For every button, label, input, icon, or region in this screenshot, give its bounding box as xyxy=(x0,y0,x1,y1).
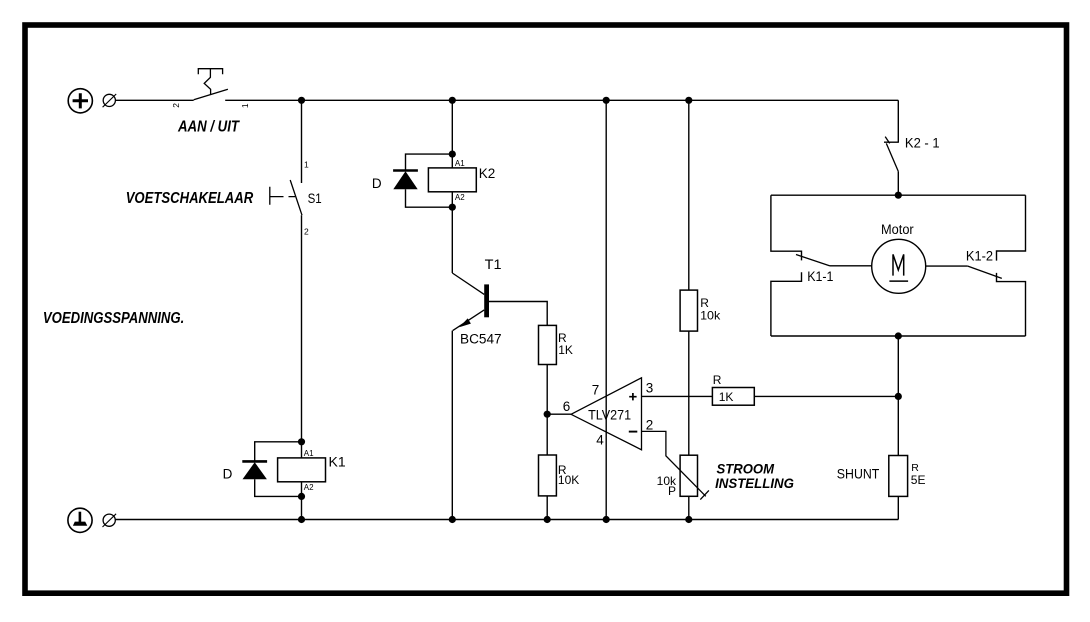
connector pin bottom-left xyxy=(103,514,117,527)
wire motor to K1-2 xyxy=(926,265,968,267)
wire motor loop to shunt node xyxy=(897,336,899,456)
ground terminal xyxy=(68,508,92,532)
svg-text:A2: A2 xyxy=(304,483,314,492)
svg-text:K1: K1 xyxy=(329,453,346,469)
wire S1 pin1 xyxy=(301,100,303,183)
node top rail / op-amp supply branch xyxy=(603,97,610,104)
svg-text:R: R xyxy=(713,373,722,387)
diode D (K2 flyback) xyxy=(393,171,418,190)
wire bottom rail xyxy=(116,519,899,521)
relay contact K2-1 blade xyxy=(886,143,898,171)
wire pin 3 stub to R1K right xyxy=(642,395,713,397)
wire motor loop right upper xyxy=(997,195,1026,260)
node top rail / K2 branch xyxy=(449,97,456,104)
svg-text:K1-1: K1-1 xyxy=(807,269,833,284)
svg-text:VOEDINGSSPANNING.: VOEDINGSSPANNING. xyxy=(43,310,184,327)
svg-text:AAN / UIT: AAN / UIT xyxy=(177,118,240,135)
svg-text:BC547: BC547 xyxy=(460,332,502,347)
resistor R 10K box xyxy=(539,455,557,496)
resistor R 1K (feedback) box xyxy=(712,388,754,406)
svg-text:10K: 10K xyxy=(558,473,579,487)
svg-text:D: D xyxy=(223,466,233,481)
svg-text:2: 2 xyxy=(171,103,181,108)
svg-text:A1: A1 xyxy=(455,159,465,168)
wire K1-1 to motor xyxy=(830,265,872,267)
svg-text:1K: 1K xyxy=(719,390,734,404)
wire op-amp supply pin7/pin4 vertical xyxy=(605,100,607,519)
svg-text:2: 2 xyxy=(304,226,309,236)
svg-text:5E: 5E xyxy=(911,473,926,487)
svg-text:VOETSCHAKELAAR: VOETSCHAKELAAR xyxy=(126,190,254,207)
relay coil K1 box xyxy=(278,458,326,482)
node K2 A1 junction xyxy=(449,151,456,158)
relay contact K2-1 fixed contact xyxy=(884,137,899,144)
node K1 A1 junction xyxy=(298,438,305,445)
wire K2 diode loop top xyxy=(406,154,453,170)
node motor loop bottom xyxy=(895,332,902,339)
wire K2 diode loop bottom xyxy=(406,189,453,207)
transistor T1 emitter lead xyxy=(453,310,485,331)
wire R10k branch vertical xyxy=(688,100,690,290)
svg-text:K1-2: K1-2 xyxy=(966,249,993,264)
wire motor loop right lower xyxy=(997,273,1026,336)
svg-text:K2 - 1: K2 - 1 xyxy=(905,136,940,151)
wire T1 base to R1K xyxy=(489,302,547,326)
op-amp plus input sign xyxy=(629,393,636,400)
relay coil K2 box xyxy=(428,168,476,192)
potentiometer wiper end tick xyxy=(700,490,709,499)
svg-text:Motor: Motor xyxy=(881,222,914,237)
svg-text:STROOM: STROOM xyxy=(717,460,775,476)
svg-text:TLV271: TLV271 xyxy=(588,407,631,422)
node shunt top junction xyxy=(895,393,902,400)
wire R1K right to shunt node xyxy=(754,395,898,397)
wire K1 diode loop bottom xyxy=(255,479,302,496)
resistor R 1K (base) box xyxy=(539,325,557,364)
svg-text:1: 1 xyxy=(240,103,250,108)
node bottom rail / K1 branch xyxy=(298,516,305,523)
wire K1 coil vertical xyxy=(301,442,303,497)
op-amp U1 TLV271 triangle xyxy=(571,378,642,450)
node K2 A2 junction xyxy=(449,204,456,211)
wire shunt to bottom rail corner xyxy=(897,496,899,519)
transistor T1 emitter arrow xyxy=(459,318,471,327)
wire K2 coil to collector xyxy=(451,192,453,273)
svg-text:D: D xyxy=(372,176,382,191)
svg-text:INSTELLING: INSTELLING xyxy=(715,475,794,491)
svg-text:A2: A2 xyxy=(455,193,465,202)
node bottom rail / op-amp pin4 xyxy=(603,516,610,523)
node motor loop top xyxy=(895,192,902,199)
svg-text:1K: 1K xyxy=(558,343,573,357)
wire motor loop bottom line xyxy=(771,335,1026,337)
diode D (K1 flyback) xyxy=(242,461,267,479)
connector pin top-left xyxy=(103,94,117,107)
wire motor loop left lower xyxy=(771,272,802,336)
svg-text:3: 3 xyxy=(646,381,654,396)
switch AAN/UIT pushbutton actuator xyxy=(198,69,222,95)
node top rail / S1 branch xyxy=(298,97,305,104)
wire node to R10K xyxy=(546,414,548,455)
wire K1 to bottom rail xyxy=(301,496,303,519)
transistor T1 base bar xyxy=(484,284,489,317)
node bottom rail / R10K branch xyxy=(544,516,551,523)
wire top rail right xyxy=(225,99,898,101)
plus supply terminal xyxy=(68,89,92,113)
wire top rail left xyxy=(115,99,193,101)
resistor R 5E shunt box xyxy=(889,456,908,497)
motor M glyph xyxy=(889,254,908,281)
svg-text:1: 1 xyxy=(304,160,309,170)
switch S1 actuator xyxy=(270,187,296,205)
wire R10k to potentiometer xyxy=(688,331,690,455)
wire emitter to bottom rail xyxy=(451,331,453,520)
wire motor loop left upper xyxy=(771,195,802,260)
wire R1K to node 6 xyxy=(546,365,548,415)
svg-text:2: 2 xyxy=(646,417,654,432)
potentiometer 10k P box xyxy=(680,455,697,496)
node pin6 junction xyxy=(544,411,551,418)
svg-text:T1: T1 xyxy=(485,257,502,272)
relay contact K1-2 blade xyxy=(968,266,1002,278)
wire potentiometer to bottom rail xyxy=(688,496,690,519)
resistor R 10k box xyxy=(680,290,697,331)
wire motor loop top line xyxy=(771,194,1026,196)
node bottom rail / pot branch xyxy=(685,516,692,523)
node bottom rail / emitter branch xyxy=(449,516,456,523)
node K1 A2 junction xyxy=(298,493,305,500)
switch AAN/UIT blade xyxy=(194,89,228,100)
svg-text:10k: 10k xyxy=(700,309,721,323)
svg-text:4: 4 xyxy=(596,432,604,447)
motor circle xyxy=(872,239,926,293)
wire K1 diode loop top xyxy=(255,442,302,461)
transistor T1 collector lead xyxy=(452,273,484,294)
svg-text:K2: K2 xyxy=(479,166,496,181)
wire R10K to bottom rail xyxy=(546,496,548,520)
svg-text:7: 7 xyxy=(592,382,600,397)
wire pin 6 stub xyxy=(547,413,571,415)
wire K2 branch upper xyxy=(451,100,453,168)
wire S1 pin2 down to K1 xyxy=(301,215,303,442)
svg-text:A1: A1 xyxy=(304,449,314,458)
wire top rail corner down to K2-1 xyxy=(897,100,899,142)
svg-text:SHUNT: SHUNT xyxy=(837,466,880,481)
switch S1 blade xyxy=(290,180,302,215)
svg-text:S1: S1 xyxy=(308,190,322,206)
wire K2-1 to motor loop xyxy=(897,171,899,195)
svg-text:P: P xyxy=(668,484,676,498)
relay contact K1-1 blade xyxy=(796,255,830,266)
node top rail / R10k branch xyxy=(685,97,692,104)
svg-text:6: 6 xyxy=(563,399,571,414)
wire pin 2 to potentiometer wiper xyxy=(642,431,706,496)
op-amp minus input sign xyxy=(629,431,638,433)
